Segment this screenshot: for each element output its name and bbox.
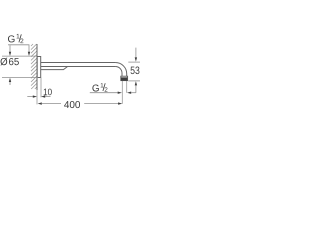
outlet left extension line bbox=[121, 81, 123, 104]
label 53 bbox=[131, 66, 140, 74]
dim 400 line left segment bbox=[42, 103, 62, 105]
dim 53 upper arrow bbox=[135, 48, 137, 58]
label G 1/2 top fraction slash bbox=[19, 34, 21, 42]
outlet nut bbox=[121, 76, 128, 80]
O65 bottom extension line bbox=[2, 77, 38, 79]
arm top edge bbox=[41, 62, 115, 64]
flange (escutcheon O65) bbox=[37, 57, 41, 78]
dim 400 line right segment bbox=[84, 103, 118, 105]
dim 53 bottom extension line bbox=[128, 80, 140, 82]
O65 top extension line bbox=[2, 55, 37, 57]
bend inner arc bbox=[115, 67, 122, 77]
arm cone skirt bbox=[41, 67, 67, 70]
wall face extension line bbox=[36, 90, 38, 104]
wall face line bbox=[36, 44, 38, 90]
label O 65 bbox=[0, 58, 18, 66]
dim 10 line left bbox=[27, 96, 33, 98]
dim 53 top extension line bbox=[128, 61, 140, 63]
G 1/2 top leader bbox=[8, 45, 29, 53]
O65 top arrow bbox=[9, 45, 11, 53]
arm tube bottom edge bbox=[41, 66, 115, 68]
dim 10 line right bbox=[41, 95, 45, 97]
flange face extension line bbox=[40, 78, 42, 98]
dim 400 right arrow bbox=[118, 102, 122, 104]
O65 bottom arrow bbox=[9, 80, 11, 85]
label G 1/2 top bbox=[8, 34, 23, 43]
label G 1/2 bottom bbox=[92, 83, 107, 92]
outlet knurl band bbox=[121, 78, 127, 81]
dim 53 lower arrow tail bbox=[135, 85, 137, 93]
G 1/2 bottom right arrow bbox=[127, 92, 131, 94]
outlet right extension line bbox=[126, 81, 128, 93]
wall hatching bbox=[31, 44, 37, 89]
label G 1/2 bottom fraction slash bbox=[103, 83, 105, 91]
label 10 bbox=[44, 89, 52, 96]
bend outer arc bbox=[115, 63, 126, 77]
G 1/2 bottom leader line bbox=[90, 92, 118, 94]
dim 400 left arrow bbox=[38, 102, 42, 104]
label 400 bbox=[64, 101, 80, 108]
